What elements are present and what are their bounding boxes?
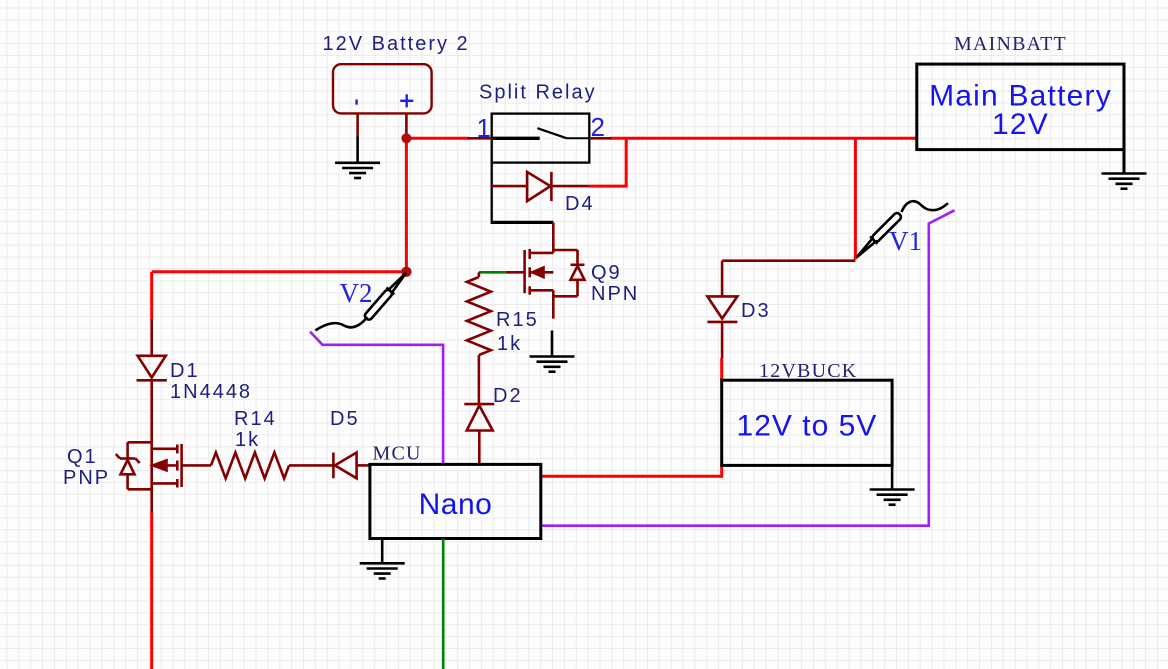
svg-text:MCU: MCU [373,443,422,465]
ground: 12VBUCK [870,490,915,505]
wire: purple V1 to Nano [541,210,955,525]
svg-text:1k: 1k [497,333,522,355]
battery B2 plus label [400,94,413,107]
diode D3 [707,296,737,358]
node: junction at V2 tap [401,267,411,277]
svg-text:Q9: Q9 [591,262,622,284]
node: junction at battery positive [401,133,411,143]
wire: red bus from relay pin 2 to Main Battery [611,137,917,140]
wire: green Nano bottom net [442,539,445,669]
svg-text:Split Relay: Split Relay [479,82,597,104]
wire: red drop to V1 probe point [854,138,857,259]
battery B2 minus label [355,100,357,105]
svg-text:2: 2 [591,112,605,142]
wire: red pin into 12VBUCK top [720,358,723,380]
diode D4 [527,172,589,201]
wire: maroon Q1 gate to R14 [182,464,211,467]
wire: red from Nano to 12VBUCK bottom [541,465,722,476]
wire: red vertical between junctions [405,138,408,271]
svg-text:12VBUCK: 12VBUCK [759,360,857,382]
relay pin 2 wire [589,137,611,140]
ground: battery B2 [335,163,380,178]
diode D4 anode wire [492,185,527,188]
wire: maroon R14 to D5 [289,464,333,467]
relay pin 1 wire [468,137,492,140]
resistor R14 [211,452,289,478]
wire: black to battery ground [356,136,359,163]
probe V1 [853,201,948,261]
block: Nano MCU box [370,464,541,538]
svg-text:MAINBATT: MAINBATT [954,33,1067,55]
relay switch contact left [492,137,540,140]
relay switch blade [537,128,566,138]
wire: black 12VBUCK to ground [891,465,894,489]
wire: maroon horizontal V1 row [722,259,855,262]
svg-text:V1: V1 [889,226,922,256]
wire: red vertical down to D1 [150,272,153,319]
svg-text:PNP: PNP [63,467,110,489]
wire: black Nano to ground [381,539,384,564]
wire: maroon gate pin [506,271,525,274]
wire: purple V2 to Nano [310,332,443,465]
diode D2 [464,404,494,464]
svg-text:R15: R15 [496,309,539,331]
relay K1 box [492,114,590,163]
wire: black relay to Q9 drain [491,221,554,224]
svg-text:NPN: NPN [591,283,639,305]
battery B2 body [333,64,432,113]
block: Main Battery box [917,64,1124,150]
diode D1 feed wire [150,319,153,356]
wire: red bus from battery junction to relay pin 1 [406,137,469,140]
battery B2 positive pin [405,113,408,138]
svg-text:12V: 12V [992,108,1049,141]
resistor R15 [467,272,491,404]
wire: green gate net [479,271,506,274]
ground: Main Battery [1102,174,1147,189]
wire: red horizontal to left branch [152,270,407,273]
ground: Q9 source [530,357,575,372]
ground: Nano [360,563,405,578]
svg-text:1N4448: 1N4448 [170,381,252,403]
transistor Q1 [116,442,182,512]
svg-text:D3: D3 [741,300,771,322]
svg-text:Q1: Q1 [67,446,98,468]
svg-text:V2: V2 [340,278,373,308]
wire: red branch down to D4 [589,138,626,186]
wire: black Main Battery to ground [1123,150,1126,174]
probe V2 [315,269,410,330]
diode D1 [137,356,167,443]
wire: black Q9 source to ground [551,331,554,357]
relay switch contact right [567,137,590,139]
diode D5 [333,453,370,479]
svg-text:D2: D2 [493,385,523,407]
svg-text:12V Battery 2: 12V Battery 2 [323,33,470,55]
block: 12VBUCK converter box [722,380,892,465]
diode D3 feed wire [721,261,724,297]
wire: black relay left leg down [491,163,493,223]
svg-text:D5: D5 [330,408,360,430]
svg-text:12V to 5V: 12V to 5V [737,410,878,443]
svg-text:D4: D4 [565,193,595,215]
svg-text:1k: 1k [235,429,260,451]
wire: red vertical below Q1 to bottom edge [150,513,153,669]
svg-text:D1: D1 [170,360,200,382]
battery B2 negative pin [356,113,359,136]
svg-text:Nano: Nano [419,488,493,521]
transistor Q9 [525,222,585,318]
svg-text:1: 1 [477,113,491,143]
svg-text:R14: R14 [234,408,277,430]
